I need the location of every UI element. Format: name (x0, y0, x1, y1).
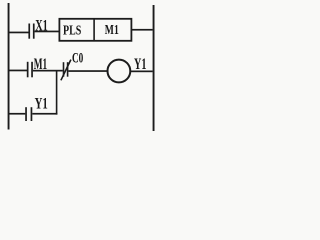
coil Y1 (108, 60, 131, 83)
contact Y1 (25, 107, 32, 121)
left power rail (8, 3, 10, 130)
wire rung2: rail to contact M1 (10, 70, 28, 72)
wire rung1: rail to contact X1 (10, 32, 29, 34)
function block PLS/M1 outline (59, 19, 131, 41)
svg-text:M1: M1 (105, 23, 119, 38)
contact C0 (normally closed) (61, 60, 71, 81)
contact X1 (28, 24, 34, 39)
wire rung2: contact C0 to coil Y1 (68, 70, 107, 72)
contact M1 (27, 62, 33, 78)
right power rail (153, 5, 155, 131)
wire rung1: function block to right rail (131, 29, 152, 31)
wire rung3: contact Y1 to branch corner (32, 113, 57, 115)
branch connector: rung3 up to rung2 (56, 70, 58, 114)
svg-text:C0: C0 (72, 50, 83, 66)
svg-text:PLS: PLS (63, 23, 81, 38)
wire rung2: coil Y1 to right rail (131, 71, 153, 73)
wire rung2: contact M1 to contact C0 (33, 70, 63, 72)
wire rung3: rail to contact Y1 (10, 113, 26, 115)
svg-text:Y1: Y1 (35, 95, 48, 112)
function block divider (93, 18, 95, 41)
wire rung1: contact X1 to function block (35, 31, 60, 33)
